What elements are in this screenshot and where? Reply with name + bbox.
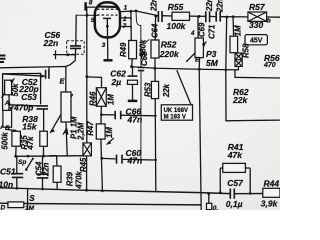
svg-text:50k: 50k bbox=[11, 83, 20, 97]
svg-text:22n: 22n bbox=[205, 0, 214, 12]
svg-text:7: 7 bbox=[123, 23, 127, 30]
svg-text:47k: 47k bbox=[26, 136, 35, 151]
svg-text:R47: R47 bbox=[86, 121, 95, 136]
svg-text:2,2M: 2,2M bbox=[77, 122, 86, 141]
svg-text:3: 3 bbox=[102, 42, 106, 49]
svg-text:47k: 47k bbox=[227, 150, 243, 160]
svg-text:C71: C71 bbox=[208, 25, 217, 39]
svg-text:R39: R39 bbox=[65, 171, 74, 186]
svg-text:M 193 V: M 193 V bbox=[164, 114, 186, 120]
svg-text:2µ: 2µ bbox=[111, 77, 122, 87]
svg-text:10n: 10n bbox=[0, 179, 13, 189]
svg-text:C69: C69 bbox=[197, 22, 206, 37]
svg-text:A: A bbox=[62, 127, 69, 137]
svg-text:UK 168V: UK 168V bbox=[164, 108, 188, 114]
svg-text:15k: 15k bbox=[22, 122, 37, 132]
svg-text:R44: R44 bbox=[264, 178, 280, 188]
svg-text:330: 330 bbox=[249, 20, 263, 30]
svg-text:1M: 1M bbox=[25, 205, 35, 210]
svg-text:47n: 47n bbox=[127, 114, 143, 124]
svg-text:1M: 1M bbox=[107, 94, 116, 105]
svg-text:500k: 500k bbox=[1, 132, 10, 150]
svg-text:R45: R45 bbox=[79, 157, 88, 172]
svg-text:22n: 22n bbox=[43, 38, 59, 48]
svg-text:1M: 1M bbox=[234, 25, 243, 36]
svg-text:4: 4 bbox=[190, 30, 195, 37]
svg-text:470: 470 bbox=[263, 62, 276, 69]
svg-text:D: D bbox=[1, 205, 6, 211]
svg-text:22n: 22n bbox=[150, 0, 159, 12]
svg-text:5M: 5M bbox=[206, 58, 219, 68]
svg-text:1M: 1M bbox=[105, 127, 114, 138]
svg-text:C68: C68 bbox=[140, 51, 149, 66]
svg-text:C57: C57 bbox=[227, 178, 244, 188]
svg-text:C64: C64 bbox=[151, 23, 160, 38]
svg-text:1: 1 bbox=[124, 5, 128, 12]
svg-text:22n: 22n bbox=[216, 0, 225, 13]
svg-text:47n: 47n bbox=[127, 156, 143, 166]
svg-text:R57: R57 bbox=[249, 2, 266, 12]
svg-text:22n: 22n bbox=[41, 162, 50, 177]
svg-text:E: E bbox=[195, 57, 200, 64]
svg-text:9: 9 bbox=[91, 17, 95, 24]
svg-text:2: 2 bbox=[122, 16, 127, 23]
svg-text:45V: 45V bbox=[250, 38, 263, 45]
svg-text:100k: 100k bbox=[167, 21, 187, 31]
svg-text:R58: R58 bbox=[242, 43, 251, 58]
svg-text:Sp: Sp bbox=[18, 159, 26, 166]
svg-text:E: E bbox=[5, 125, 10, 132]
svg-text:R46: R46 bbox=[89, 91, 98, 106]
svg-text:C51: C51 bbox=[0, 166, 16, 176]
svg-text:22k: 22k bbox=[232, 95, 248, 105]
svg-text:S: S bbox=[29, 194, 35, 203]
svg-text:8: 8 bbox=[89, 0, 93, 7]
svg-text:R53: R53 bbox=[143, 82, 152, 97]
svg-text:R49: R49 bbox=[119, 42, 128, 57]
svg-text:22k: 22k bbox=[162, 83, 171, 98]
svg-text:A: A bbox=[4, 100, 10, 107]
svg-text:R55: R55 bbox=[168, 2, 184, 12]
svg-text:3,9k: 3,9k bbox=[261, 198, 279, 208]
svg-text:C53: C53 bbox=[21, 92, 37, 102]
svg-text:470p: 470p bbox=[13, 103, 33, 113]
svg-text:470k: 470k bbox=[75, 171, 84, 190]
svg-text:220k: 220k bbox=[159, 49, 180, 59]
svg-text:0,1µ: 0,1µ bbox=[226, 199, 243, 209]
svg-text:0,: 0, bbox=[213, 205, 219, 210]
svg-text:b: b bbox=[267, 18, 271, 25]
